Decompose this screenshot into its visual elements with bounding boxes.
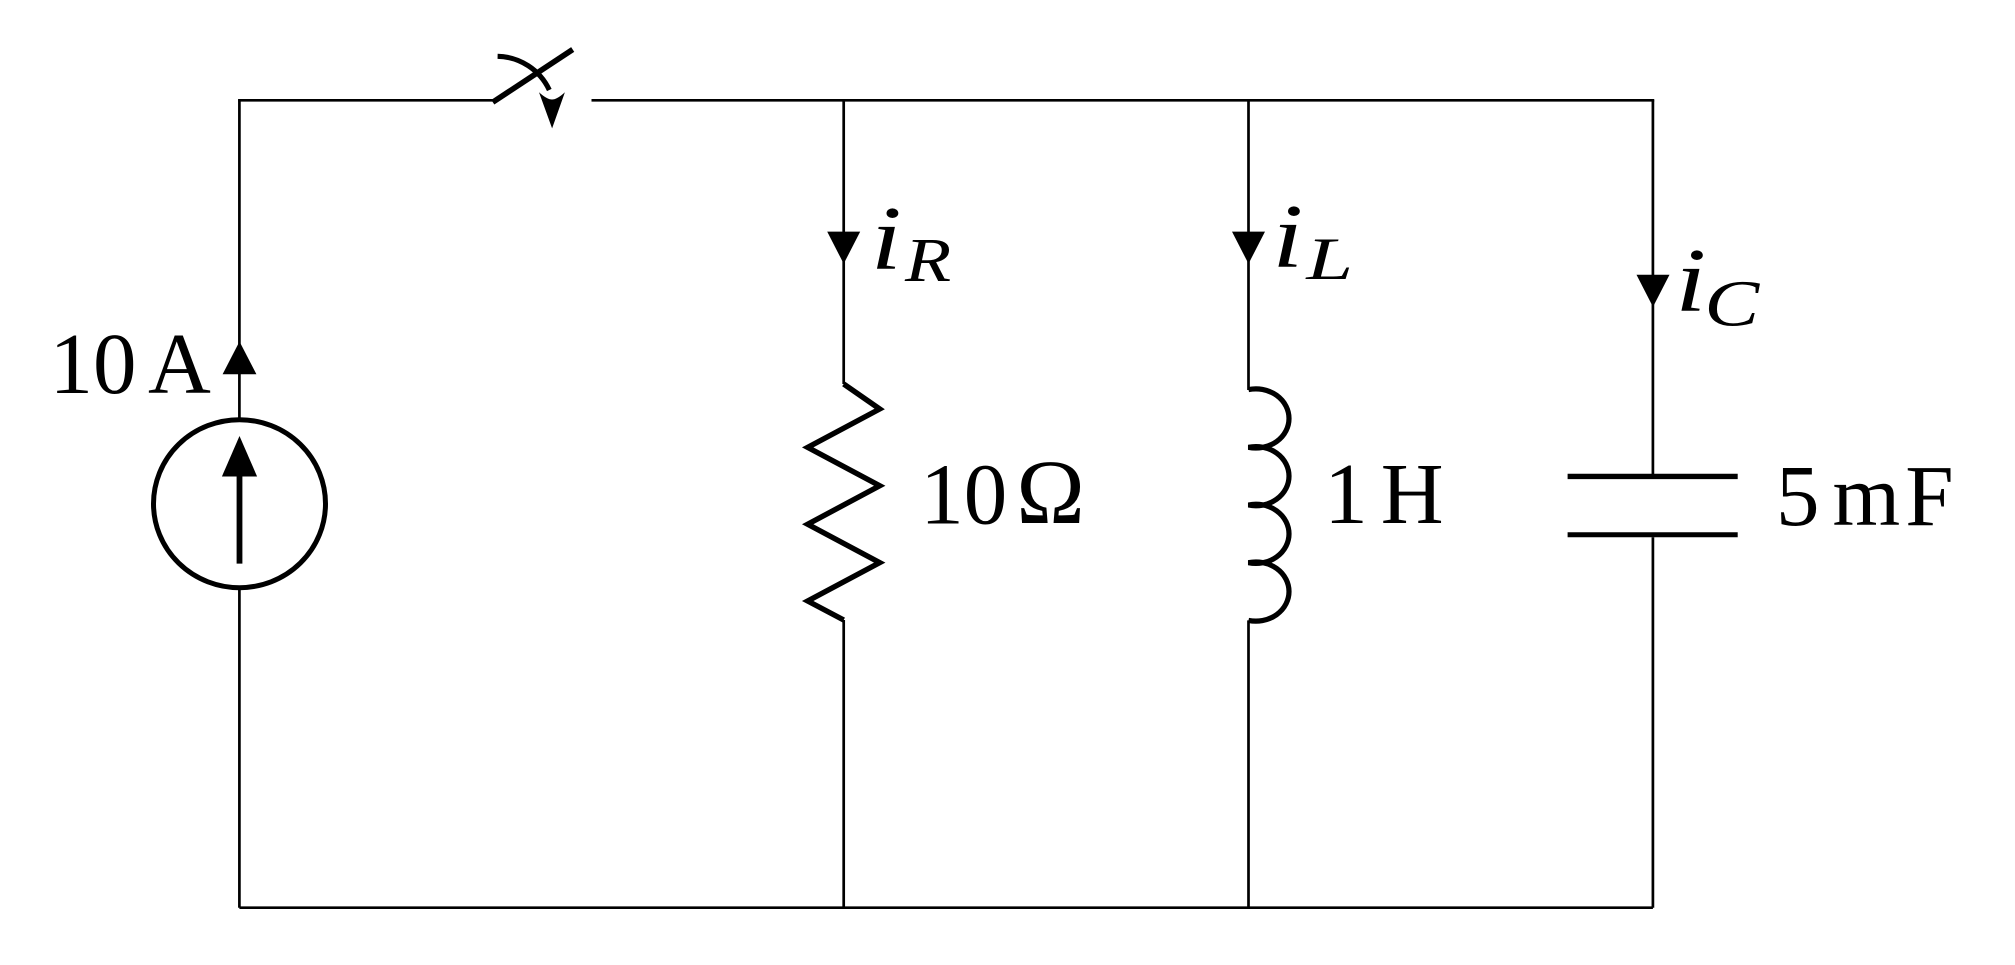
wire: top segment from switch to top-right corner [592, 100, 1653, 101]
svg-text:L: L [1305, 226, 1353, 293]
svg-text:C: C [1704, 268, 1760, 340]
svg-text:Ω: Ω [1015, 441, 1086, 543]
label i_C [1675, 230, 1706, 331]
label i_R [871, 188, 902, 289]
wire: capacitor branch top (from top-right corner down) [1652, 100, 1655, 474]
svg-text:i: i [1272, 186, 1303, 287]
svg-text:H: H [1381, 445, 1444, 542]
current arrow i_L (pointing down) [1232, 232, 1265, 264]
svg-text:10: 10 [50, 315, 137, 412]
svg-text:1: 1 [1324, 445, 1368, 542]
capacitor C1 top plate [1568, 474, 1738, 479]
wire: inductor branch top [1247, 100, 1250, 390]
current source I1 circle [154, 420, 326, 588]
svg-text:R: R [904, 226, 951, 296]
svg-text:m: m [1833, 447, 1901, 544]
wire: left vertical from top-left corner down to current source [238, 100, 241, 418]
label i_L [1272, 186, 1303, 287]
current arrow i_C (pointing down) [1637, 275, 1670, 307]
switch SW1 blade [493, 50, 573, 103]
switch SW1 opening arc [498, 56, 550, 90]
svg-text:5: 5 [1776, 447, 1820, 544]
wire: resistor branch bottom [842, 620, 845, 908]
wire: resistor branch top [842, 100, 845, 384]
svg-text:F: F [1905, 447, 1953, 544]
svg-text:i: i [871, 188, 902, 289]
wire: capacitor branch bottom [1652, 537, 1655, 908]
svg-text:A: A [148, 315, 211, 412]
wire: left vertical below current source to bottom-left corner [238, 589, 241, 908]
svg-text:i: i [1675, 230, 1706, 331]
current source I1 inner arrow [237, 474, 243, 564]
resistor R1 zigzag [808, 384, 880, 620]
current arrow 10 A on left wire (pointing up) [223, 342, 257, 375]
capacitor C1 bottom plate [1568, 532, 1738, 537]
wire: top-left segment from top-left corner to switch [239, 100, 494, 101]
inductor L1 coil [1249, 389, 1290, 621]
wire: bottom horizontal [239, 906, 1653, 909]
switch SW1 arc arrowhead [539, 92, 565, 128]
wire: inductor branch bottom [1247, 620, 1250, 907]
svg-text:10: 10 [920, 446, 1007, 543]
current arrow i_R (pointing down) [827, 232, 860, 264]
